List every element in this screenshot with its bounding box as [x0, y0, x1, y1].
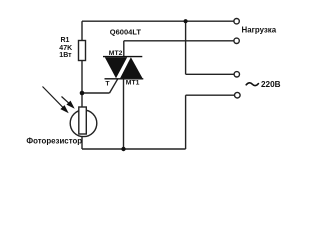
svg-text:T: T	[105, 80, 110, 87]
svg-text:47K: 47K	[59, 45, 72, 52]
wire to terminal 4	[186, 94, 235, 96]
wire gate diagonal	[110, 79, 118, 93]
terminal 3 mains top	[234, 72, 239, 77]
wire photoresistor bottom riser	[81, 134, 83, 149]
photoresistor body rect	[79, 107, 87, 134]
wire bottom horizontal	[82, 148, 186, 150]
photoresistor circle	[70, 110, 97, 137]
svg-text:1Вт: 1Вт	[59, 52, 72, 59]
AC tilde symbol	[246, 83, 258, 86]
wire lower right up	[185, 95, 187, 149]
wire top horizontal net A	[82, 20, 234, 22]
wire net B horizontal	[124, 40, 234, 42]
svg-text:Нагрузка: Нагрузка	[242, 25, 277, 34]
terminal 1 load top	[234, 19, 239, 24]
resistor R1	[79, 41, 86, 61]
wire gate horizontal	[82, 92, 110, 94]
svg-text:220В: 220В	[261, 80, 281, 89]
wire mid vertical upper	[185, 21, 187, 74]
svg-text:R1: R1	[61, 37, 70, 44]
wire to terminal 3	[186, 73, 235, 75]
node junction dot top net	[184, 19, 188, 23]
wire R1 bottom to photoresistor	[81, 61, 83, 112]
svg-text:MT2: MT2	[109, 50, 123, 57]
svg-text:Фоторезистор: Фоторезистор	[26, 137, 82, 146]
node junction dot gate tap	[80, 91, 85, 96]
triac bottom bar MT1	[105, 78, 144, 80]
terminal 4 mains bottom	[235, 92, 241, 98]
triac left triangle	[105, 57, 127, 78]
svg-text:Q6004LT: Q6004LT	[110, 27, 142, 36]
svg-text:MT1: MT1	[126, 80, 140, 87]
terminal 2 load bottom	[234, 38, 239, 43]
light arrow 2	[62, 97, 75, 109]
node junction dot bottom net	[121, 147, 125, 151]
triac right triangle	[120, 57, 143, 78]
wire R1 top riser	[81, 21, 83, 40]
wire MT1 riser down	[123, 79, 125, 149]
light arrow 1	[43, 87, 69, 114]
wire MT2 riser	[123, 41, 125, 57]
triac U1 top bar MT2	[103, 56, 142, 58]
